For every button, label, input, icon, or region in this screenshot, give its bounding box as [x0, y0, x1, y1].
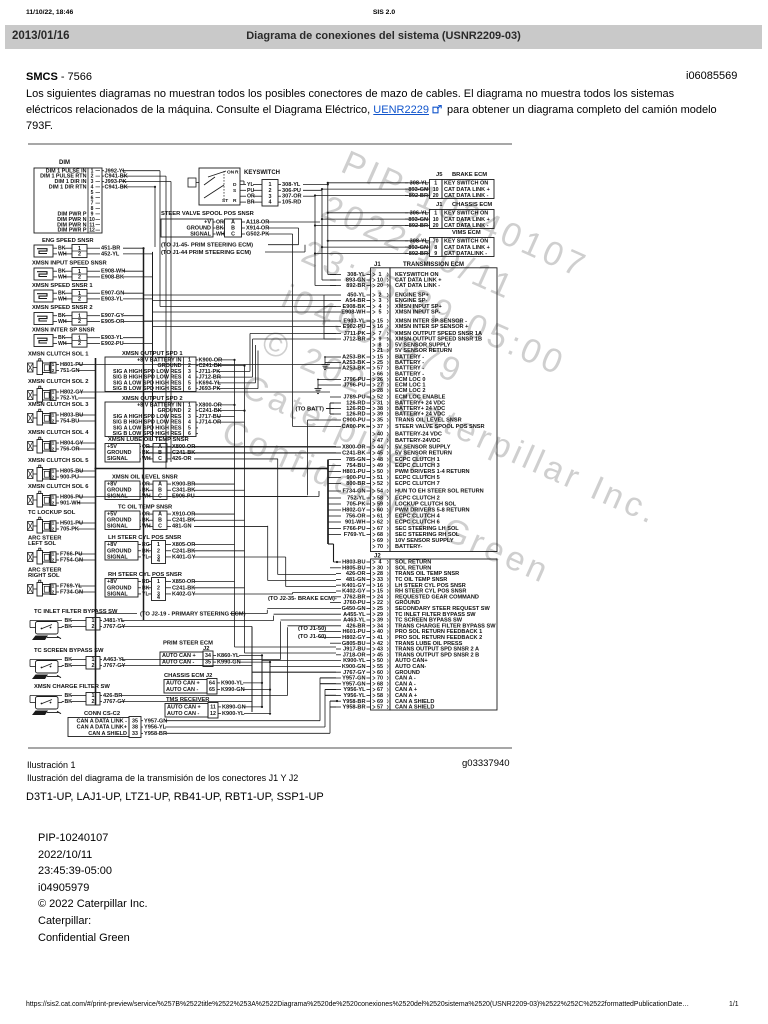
- wire data- bus: [314, 196, 316, 285]
- svg-text:2: 2: [52, 395, 55, 401]
- svg-text:+8V: +8V: [107, 481, 117, 487]
- svg-text:Y958-BR: Y958-BR: [342, 705, 365, 711]
- svg-text:WH: WH: [58, 296, 67, 302]
- svg-text:(TO BATT): (TO BATT): [296, 407, 325, 413]
- svg-text:ON: ON: [227, 170, 235, 176]
- svg-text:J714-OR: J714-OR: [199, 420, 222, 426]
- svg-text:AUTO CAN +: AUTO CAN +: [166, 681, 200, 687]
- wire can: [243, 682, 262, 684]
- svg-text:LEFT SOL: LEFT SOL: [28, 541, 56, 547]
- svg-text:R: R: [235, 170, 239, 176]
- svg-text:J1: J1: [374, 262, 381, 268]
- svg-text:D: D: [233, 182, 237, 188]
- node clutch bus junction: [94, 467, 96, 469]
- svg-text:TRANS OIL LEVEL SNSR: TRANS OIL LEVEL SNSR: [395, 418, 462, 424]
- svg-text:TC SCREEN BYPASS SW: TC SCREEN BYPASS SW: [34, 648, 104, 654]
- svg-text:CAT DATA LINK -: CAT DATA LINK -: [395, 283, 440, 289]
- wire F734-GN run: [96, 496, 320, 498]
- wire to J1: [322, 218, 426, 220]
- svg-text:TMS RECEIVER: TMS RECEIVER: [166, 697, 210, 703]
- wire charge filter gy: [121, 701, 252, 703]
- wire can bus 262: [261, 655, 263, 707]
- wire stub J1 row: [324, 306, 336, 308]
- svg-text:2: 2: [78, 297, 81, 303]
- svg-text:ECM LOC 2: ECM LOC 2: [395, 388, 425, 394]
- svg-text:10: 10: [433, 217, 439, 223]
- svg-text:65: 65: [209, 687, 215, 693]
- svg-text:BK: BK: [142, 585, 150, 591]
- svg-text:Y956-YL: Y956-YL: [144, 725, 167, 731]
- pin 5 XMSN INPUT SP-: [336, 310, 441, 316]
- pin 3 ENGINE SP-: [336, 298, 427, 304]
- wire stub J1 row: [324, 311, 336, 313]
- wire to: [322, 246, 426, 248]
- svg-text:20: 20: [433, 193, 439, 199]
- svg-text:35: 35: [205, 660, 211, 666]
- svg-text:1: 1: [52, 362, 55, 368]
- wire can+ to J2: [261, 659, 263, 661]
- svg-text:893-GN: 893-GN: [408, 245, 428, 251]
- wire gy to J2-60: [252, 671, 336, 673]
- svg-text:105-RD: 105-RD: [282, 200, 301, 206]
- wire secondary steer: [96, 613, 138, 615]
- svg-text:XMSN CLUTCH SOL 3: XMSN CLUTCH SOL 3: [28, 402, 89, 408]
- pin 52 ECPC CLUTCH 7: [329, 481, 440, 487]
- svg-text:1: 1: [52, 440, 55, 446]
- svg-text:1: 1: [52, 468, 55, 474]
- wire clutch return run: [96, 468, 329, 470]
- pin 4 SOL RETURN: [334, 560, 432, 566]
- svg-text:756-OR: 756-OR: [60, 447, 80, 453]
- svg-text:901-WH: 901-WH: [60, 501, 81, 507]
- svg-text:DIM PWR P: DIM PWR P: [57, 228, 86, 234]
- svg-text:5V SENSOR RETURN: 5V SENSOR RETURN: [395, 348, 452, 354]
- svg-text:AUTO CAN +: AUTO CAN +: [167, 705, 201, 711]
- models line: [26, 791, 324, 803]
- wire gy bus: [251, 627, 253, 713]
- svg-text:K900-BR: K900-BR: [172, 481, 195, 487]
- svg-text:2: 2: [52, 526, 55, 532]
- svg-text:KEY SWITCH ON: KEY SWITCH ON: [444, 180, 488, 186]
- wire can: [239, 654, 262, 656]
- wire CS-C2 Y957-GN: [165, 720, 320, 722]
- svg-text:(TO J2-19 - PRIMARY STEERING E: (TO J2-19 - PRIMARY STEERING ECM): [140, 612, 246, 618]
- wire X805-OR: [194, 544, 235, 546]
- svg-text:(TO J2-35- BRAKE ECM)-: (TO J2-35- BRAKE ECM)-: [268, 596, 337, 602]
- header app title: [0, 9, 768, 16]
- wire stub J1 row: [324, 333, 336, 335]
- svg-text:892-BR: 892-BR: [409, 193, 428, 199]
- module CHASSIS ECM: [314, 202, 494, 229]
- svg-text:426-OR: 426-OR: [172, 456, 192, 462]
- wire C241-BK rh: [194, 587, 245, 589]
- svg-text:20: 20: [377, 283, 383, 289]
- svg-text:A: A: [158, 511, 162, 517]
- pin 45 5V SENSOR RETURN: [146, 451, 452, 457]
- sensor XMSN INPUT SPEED SNSR: [32, 261, 153, 281]
- intro paragraph: [26, 87, 746, 134]
- svg-text:2: 2: [157, 548, 160, 554]
- node bus junction eng speed: [142, 247, 144, 249]
- svg-text:2: 2: [52, 368, 55, 374]
- svg-text:WH: WH: [58, 274, 67, 280]
- svg-text:ECPC CLUTCH 7: ECPC CLUTCH 7: [395, 481, 440, 487]
- svg-text:GROUND: GROUND: [107, 585, 131, 591]
- svg-text:52: 52: [377, 481, 383, 487]
- wire sensor bus 2: [152, 252, 154, 440]
- svg-text:XMSN CHARGE FILTER SW: XMSN CHARGE FILTER SW: [34, 684, 110, 690]
- svg-text:306-YL: 306-YL: [410, 210, 429, 216]
- module CHASSIS ECM J2: [164, 673, 271, 694]
- svg-text:C241-BK: C241-BK: [172, 548, 195, 554]
- svg-text:BK: BK: [142, 548, 150, 554]
- svg-text:+8V: +8V: [107, 542, 117, 548]
- switch TC INLET FILTER BYPASS SW: [30, 609, 126, 640]
- pin 43 TRANS OUTPUT SPD SNSR 2 A: [336, 647, 479, 653]
- pin 57 BATTERY -: [334, 366, 424, 372]
- svg-text:Y958-BR: Y958-BR: [144, 731, 167, 737]
- svg-text:SIGNAL: SIGNAL: [107, 554, 128, 560]
- wire spd1 sigA2: [217, 382, 256, 384]
- svg-text:Y957-GN: Y957-GN: [144, 718, 167, 724]
- svg-text:CHASSIS ECM: CHASSIS ECM: [452, 202, 492, 208]
- wire vertical x244.5: [244, 366, 246, 653]
- svg-text:BRAKE ECM: BRAKE ECM: [452, 172, 487, 178]
- sensor LH STEER CYL POS SNSR: [105, 535, 196, 564]
- solenoid ARC STEER LEFT SOL: [28, 535, 96, 564]
- watermark text: [216, 144, 745, 623]
- svg-text:1: 1: [52, 412, 55, 418]
- wire C241-BK lh: [194, 550, 245, 552]
- svg-text:XMSN INTER SP SNSR: XMSN INTER SP SNSR: [32, 328, 96, 334]
- switch KEYSWITCH: [188, 168, 280, 205]
- svg-text:XMSN SPEED SNSR 2: XMSN SPEED SNSR 2: [32, 305, 93, 311]
- svg-text:A: A: [158, 481, 162, 487]
- pin 50 PWM DRIVERS 1-4 RETURN: [329, 469, 470, 475]
- svg-text:2: 2: [157, 585, 160, 591]
- wire K402-GY: [194, 593, 293, 595]
- svg-text:XMSN CLUTCH SOL 5: XMSN CLUTCH SOL 5: [28, 458, 89, 464]
- svg-text:47: 47: [377, 438, 383, 444]
- svg-text:CAT DATA LINK -: CAT DATA LINK -: [444, 193, 489, 199]
- svg-text:800-BR: 800-BR: [346, 481, 365, 487]
- solenoid ARC STEER RIGHT SOL: [28, 567, 96, 596]
- svg-text:SIG B LOW SPD HIGH RES: SIG B LOW SPD HIGH RES: [113, 386, 182, 392]
- svg-text:16: 16: [377, 324, 383, 330]
- svg-text:CAT DATALINK -: CAT DATALINK -: [444, 251, 487, 257]
- svg-text:C941-BK: C941-BK: [105, 185, 128, 191]
- wire spd1 sigB2: [217, 388, 258, 390]
- svg-text:XMSN CLUTCH SOL 4: XMSN CLUTCH SOL 4: [28, 430, 89, 436]
- pin 15 RH STEER CYL POS SNSR: [336, 589, 466, 595]
- svg-text:WH: WH: [58, 251, 67, 257]
- svg-text:K890-GN: K890-GN: [222, 705, 246, 711]
- svg-text:J5: J5: [436, 172, 443, 178]
- svg-text:752-YL: 752-YL: [60, 396, 79, 402]
- pin 50 AUTO CAN+: [262, 658, 428, 664]
- pin 41 PRO SOL RETURN FEEDBACK 2: [325, 635, 482, 641]
- svg-text:RH STEER CYL POS SNSR: RH STEER CYL POS SNSR: [108, 572, 183, 578]
- svg-text:E903-YL: E903-YL: [101, 296, 124, 302]
- caption: [27, 759, 298, 784]
- svg-text:K402-GY: K402-GY: [172, 591, 196, 597]
- wire vertical x234.5: [234, 360, 236, 647]
- rule above diagram: [28, 143, 512, 145]
- wire feed inter sp: [144, 320, 325, 322]
- caption g-number: [462, 758, 510, 769]
- sensor XMSN LUBE OIL TEMP SNSR: [105, 437, 336, 462]
- pin 16 LH STEER CYL POS SNSR: [336, 583, 466, 589]
- module VIMS ECM: [314, 230, 494, 257]
- svg-text:1: 1: [157, 579, 160, 585]
- svg-text:1: 1: [52, 494, 55, 500]
- svg-text:BATTERY-24VDC: BATTERY-24VDC: [395, 438, 440, 444]
- svg-text:ENG SPEED SNSR: ENG SPEED SNSR: [42, 238, 94, 244]
- wire to J1-50: [319, 631, 325, 633]
- svg-text:(TO J1-44 PRIM STEERING ECM): (TO J1-44 PRIM STEERING ECM): [161, 250, 251, 256]
- svg-text:28: 28: [377, 388, 383, 394]
- sensor XMSN INTER SP SNSR: [32, 328, 153, 348]
- svg-text:GROUND: GROUND: [107, 517, 131, 523]
- wire can: [244, 706, 262, 708]
- pin 58 ECPC CLUTCH 2: [329, 496, 440, 502]
- sensor ENG SPEED SNSR: [34, 238, 153, 258]
- svg-text:X850-OR: X850-OR: [172, 579, 195, 585]
- svg-text:+5V: +5V: [107, 444, 117, 450]
- wire DIM J993-PK: [122, 181, 171, 183]
- wire stub J1 row: [324, 338, 336, 340]
- pin 20 CAT DATA LINK -: [330, 283, 440, 289]
- svg-text:CAN A DATA LINK+: CAN A DATA LINK+: [77, 725, 127, 731]
- svg-text:5V SENSOR RETURN: 5V SENSOR RETURN: [395, 451, 452, 457]
- svg-text:RIGHT SOL: RIGHT SOL: [28, 573, 60, 579]
- svg-text:892-BR: 892-BR: [346, 283, 365, 289]
- svg-text:1: 1: [52, 520, 55, 526]
- svg-text:F734-GN: F734-GN: [342, 489, 365, 495]
- svg-text:TRANSMISSION ECM: TRANSMISSION ECM: [403, 262, 464, 268]
- svg-text:X910-OR: X910-OR: [172, 511, 195, 517]
- wire 481-GN down: [267, 526, 269, 581]
- module TMS RECEIVER: [165, 697, 271, 718]
- svg-text:35: 35: [132, 718, 138, 724]
- svg-text:2: 2: [52, 418, 55, 424]
- svg-text:XMSN SPEED SNSR 1: XMSN SPEED SNSR 1: [32, 283, 93, 289]
- wire stub J1 row: [324, 326, 336, 328]
- svg-text:70: 70: [377, 544, 383, 550]
- pin 67 SEC STEERING LH SOL: [329, 526, 460, 532]
- pin 59 LOCKUP CLUTCH SOL: [329, 502, 457, 508]
- svg-text:XMSN CLUTCH SOL 6: XMSN CLUTCH SOL 6: [28, 484, 89, 490]
- sensor STEER VALVE SPOOL POS SNSR: [161, 211, 269, 238]
- pin 69 10V SENSOR SUPPLY: [373, 538, 454, 544]
- solenoid XMSN CLUTCH SOL 2: [28, 379, 331, 402]
- wire spd2 sigB: [217, 421, 245, 423]
- svg-text:BK: BK: [65, 624, 73, 630]
- svg-text:GROUND: GROUND: [107, 487, 131, 493]
- svg-text:2: 2: [92, 699, 95, 705]
- wire tc inlet gy: [121, 626, 252, 628]
- svg-text:E908-BK: E908-BK: [101, 274, 124, 280]
- switch TC SCREEN BYPASS SW: [30, 648, 126, 679]
- svg-text:2: 2: [52, 557, 55, 563]
- svg-text:XMSN INTER SP SENSOR +: XMSN INTER SP SENSOR +: [395, 324, 469, 330]
- wire to J1: [315, 225, 426, 227]
- header date/time: [26, 9, 73, 16]
- svg-text:481-GN: 481-GN: [172, 524, 192, 530]
- footer url: [26, 1001, 689, 1008]
- svg-text:CAT DATA LINK +: CAT DATA LINK +: [444, 217, 490, 223]
- svg-text:E905-OR: E905-OR: [101, 319, 124, 325]
- svg-text:XMSN CLUTCH SOL 1: XMSN CLUTCH SOL 1: [28, 352, 89, 358]
- document id: [686, 70, 737, 82]
- wire collector x324: [323, 295, 325, 339]
- wire feed inter sp+: [153, 326, 325, 328]
- svg-text:J693-PK: J693-PK: [199, 386, 221, 392]
- wire to: [315, 253, 426, 255]
- pin 57 CAN A SHIELD: [330, 705, 434, 711]
- wire TO J1-44 run: [265, 251, 305, 253]
- svg-text:705-PK: 705-PK: [60, 527, 79, 533]
- svg-text:2: 2: [52, 474, 55, 480]
- svg-text:J796-PU: J796-PU: [343, 383, 365, 389]
- ground ecm loc: [315, 379, 335, 394]
- pin 60 PWM DRIVERS 5-8 RETURN: [329, 508, 470, 514]
- svg-text:892-BR: 892-BR: [409, 251, 428, 257]
- svg-text:KEY SWITCH ON: KEY SWITCH ON: [444, 210, 488, 216]
- svg-text:CAN A SHIELD: CAN A SHIELD: [88, 731, 127, 737]
- svg-text:893-GN: 893-GN: [408, 217, 428, 223]
- svg-text:754-BU: 754-BU: [60, 419, 79, 425]
- wire can: [239, 661, 270, 663]
- svg-text:12: 12: [89, 228, 95, 234]
- svg-text:CAT DATA LINK -: CAT DATA LINK -: [444, 223, 489, 229]
- svg-text:5: 5: [379, 310, 382, 316]
- svg-text:9: 9: [434, 251, 437, 257]
- pin 15 XMSN INTER SP SENSOR -: [336, 319, 467, 325]
- svg-text:E908-WH: E908-WH: [341, 310, 365, 316]
- wire stub J1 row: [324, 294, 336, 296]
- svg-text:KEY SWITCH ON: KEY SWITCH ON: [444, 238, 488, 244]
- bracket TO BATT: [326, 403, 334, 414]
- pin 22 GROUND: [330, 600, 420, 606]
- pin 38 BATTERY+ 24 VDC: [334, 406, 445, 412]
- svg-text:E902-PU: E902-PU: [101, 341, 124, 347]
- wire 426-OR down: [277, 459, 279, 575]
- svg-text:DIM 1 DIR RTN: DIM 1 DIR RTN: [49, 185, 87, 191]
- connector XMSN OUTPUT SPD 1: [105, 351, 222, 392]
- sensor XMSN SPEED SNSR 1: [32, 283, 153, 303]
- wire to J5: [328, 182, 426, 184]
- svg-text:B: B: [158, 487, 162, 493]
- pin 55 AUTO CAN-: [270, 664, 426, 670]
- pin 10 CAT DATA LINK +: [330, 278, 442, 284]
- svg-text:AUTO CAN +: AUTO CAN +: [162, 653, 196, 659]
- svg-text:308-YL: 308-YL: [410, 238, 429, 244]
- wire tc inlet sw out: [121, 620, 274, 622]
- svg-text:37: 37: [377, 424, 383, 430]
- wire X850-OR: [194, 581, 235, 583]
- wire spd2 X800-OR: [217, 404, 235, 406]
- solenoid TC LOCKUP SOL: [28, 510, 96, 533]
- svg-text:20: 20: [433, 223, 439, 229]
- svg-text:WH: WH: [216, 232, 225, 238]
- connector XMSN OUTPUT SPD 2: [105, 396, 222, 437]
- svg-text:308-YL: 308-YL: [410, 180, 429, 186]
- sensor XMSN OIL LEVEL SNSR: [105, 475, 308, 500]
- pin 61 ECPC CLUTCH 4: [329, 514, 441, 520]
- connector DIM: [34, 160, 128, 234]
- svg-text:TC OIL TEMP SNSR: TC OIL TEMP SNSR: [118, 505, 173, 511]
- svg-text:2: 2: [78, 341, 81, 347]
- wire can: [243, 689, 270, 691]
- svg-text:54: 54: [377, 489, 383, 495]
- svg-text:2: 2: [52, 500, 55, 506]
- svg-text:1: 1: [434, 210, 437, 216]
- svg-text:J712-BR: J712-BR: [343, 337, 365, 343]
- solenoid XMSN CLUTCH SOL 3: [28, 402, 96, 425]
- svg-text:11: 11: [210, 705, 216, 711]
- svg-text:8: 8: [434, 245, 437, 251]
- pin 39 TC SCREEN BYPASS SW: [281, 618, 463, 624]
- pin 16 XMSN INTER SP SENSOR +: [336, 324, 469, 330]
- wire bus x166: [165, 176, 167, 468]
- svg-text:HUN TO EH STEER SOL RETURN: HUN TO EH STEER SOL RETURN: [395, 489, 484, 495]
- svg-text:1: 1: [52, 551, 55, 557]
- svg-text:CAN A SHIELD: CAN A SHIELD: [395, 705, 434, 711]
- svg-text:(TO J1-50): (TO J1-50): [298, 626, 326, 632]
- svg-text:XMSN LUBE OIL TEMP SNSR: XMSN LUBE OIL TEMP SNSR: [108, 437, 189, 443]
- pin 30 SOL RETURN: [330, 565, 431, 571]
- svg-text:K990-GN: K990-GN: [221, 687, 245, 693]
- wire bus x171: [170, 182, 172, 463]
- module TRANSMISSION ECM J2: [371, 554, 498, 711]
- svg-text:DIM: DIM: [59, 160, 70, 166]
- wire tc screen out: [121, 659, 281, 661]
- svg-text:C241-BK: C241-BK: [172, 585, 195, 591]
- pin 67 CAN A +: [325, 687, 418, 693]
- svg-text:901-WH: 901-WH: [345, 520, 366, 526]
- svg-text:2: 2: [78, 319, 81, 325]
- pin 68 CAN A -: [320, 681, 416, 687]
- pin 27 ECM LOC 1: [334, 383, 425, 389]
- node can shield junction: [336, 561, 338, 563]
- svg-text:CA00-PK: CA00-PK: [342, 424, 366, 430]
- module TRANSMISSION ECM J1: [371, 262, 498, 552]
- pin 58 CAN A +: [325, 693, 418, 699]
- svg-text:C: C: [158, 456, 162, 462]
- svg-text:F754-GN: F754-GN: [60, 558, 83, 564]
- svg-text:VIMS ECM: VIMS ECM: [452, 230, 481, 236]
- switch XMSN CHARGE FILTER SW: [30, 684, 126, 715]
- svg-text:J767-GY: J767-GY: [103, 699, 126, 705]
- wire tc screen gy: [121, 665, 252, 667]
- svg-text:LH STEER CYL POS SNSR: LH STEER CYL POS SNSR: [108, 535, 182, 541]
- svg-text:AUTO CAN -: AUTO CAN -: [167, 711, 199, 717]
- svg-text:STEER VALVE SPOOL POS SNSR: STEER VALVE SPOOL POS SNSR: [395, 424, 485, 430]
- svg-text:40: 40: [377, 432, 383, 438]
- wire E906-PU to oil level row: [307, 420, 309, 495]
- pin 15 BATTERY -: [334, 355, 424, 361]
- wire sensor bus left: [143, 248, 145, 620]
- wire DIM C941-BK pin4: [122, 186, 155, 188]
- pin 21 5V SENSOR RETURN: [373, 348, 452, 354]
- svg-text:XMSN CLUTCH SOL 2: XMSN CLUTCH SOL 2: [28, 379, 88, 385]
- svg-text:38: 38: [132, 725, 138, 731]
- svg-text:A253-BK: A253-BK: [342, 366, 365, 372]
- solenoid XMSN CLUTCH SOL 4: [28, 430, 96, 453]
- wire spd1 sigB: [217, 376, 253, 378]
- pin 29 TC INLET FILTER BYPASS SW: [274, 612, 477, 618]
